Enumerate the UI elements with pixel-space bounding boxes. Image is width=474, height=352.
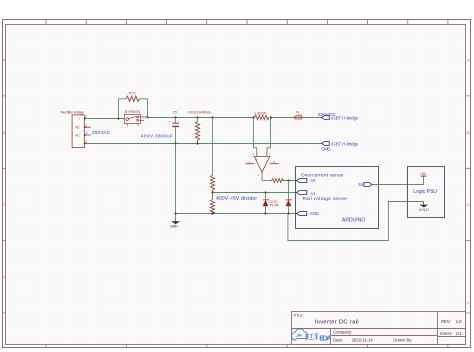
svg-text:EDA: EDA <box>319 334 331 343</box>
junction at PTC left leg <box>117 117 119 119</box>
junction gnd rail at divider <box>211 212 213 214</box>
frame row labels <box>2 58 470 306</box>
svg-text:+: + <box>256 158 258 162</box>
junction +rail at shunt left <box>252 116 254 118</box>
wire logic psu gnd <box>288 202 424 241</box>
svg-text:Company:: Company: <box>333 330 352 335</box>
svg-text:Logic PSU: Logic PSU <box>413 189 437 195</box>
kelvin sense wire right <box>267 118 271 153</box>
output series resistor <box>272 179 284 183</box>
ground symbol <box>170 214 180 229</box>
svg-text:B: B <box>2 130 5 135</box>
port GND (arduino) <box>297 211 319 216</box>
svg-text:D: D <box>2 275 5 280</box>
svg-text:ARDUINO: ARDUINO <box>342 218 366 224</box>
svg-text:5V 2W: 5V 2W <box>270 203 279 207</box>
svg-text:Rectifier bridge: Rectifier bridge <box>61 111 85 115</box>
discharge resistor R DISCHARGE <box>188 110 211 143</box>
svg-text:C5: C5 <box>173 110 177 114</box>
svg-text:-: - <box>79 142 80 146</box>
svg-text:1/1: 1/1 <box>456 331 462 336</box>
bridge pin 3 AC stub <box>84 131 91 136</box>
logic psu module <box>408 167 445 218</box>
port A1 <box>297 191 316 196</box>
svg-text:Overcurrent sense: Overcurrent sense <box>301 173 344 179</box>
arduino U2 <box>296 167 379 229</box>
svg-text:GND: GND <box>419 207 430 212</box>
wire op-amp output <box>262 175 297 180</box>
junction -rail at capacitor <box>174 142 176 144</box>
zener diode D2 <box>263 193 269 213</box>
junction divider tap <box>211 191 213 193</box>
svg-text:DISCHARGE: DISCHARGE <box>188 110 211 114</box>
svg-text:250VAC: 250VAC <box>92 130 111 136</box>
EasyEDA logo <box>292 329 319 340</box>
relay K1 BYPASS <box>124 109 147 126</box>
svg-text:Drawn By:: Drawn By: <box>393 338 412 343</box>
svg-text:TITLE:: TITLE: <box>293 313 304 317</box>
PTC resistor <box>119 91 148 118</box>
fuse F1 15A <box>295 110 322 119</box>
port A0 <box>297 178 316 183</box>
kelvin sense wire left <box>254 118 257 153</box>
wire gnd rail <box>176 213 297 215</box>
bridge pin 2 (+) stub <box>84 115 88 120</box>
+5V power flag <box>420 172 427 176</box>
junction A0 node <box>287 179 289 181</box>
shunt resistor 1.0mW <box>254 111 269 119</box>
divider resistor R lower <box>210 199 214 214</box>
wire +rail relay to fuse <box>148 117 295 119</box>
svg-text:AC: AC <box>75 126 80 130</box>
junction A1 at zener D2 <box>264 191 266 193</box>
wire divider tap <box>212 190 214 200</box>
labels D2 D1 5V 2W <box>269 200 279 207</box>
junction gnd rail at D2 <box>264 212 266 214</box>
junction +rail at shunt right <box>270 116 272 118</box>
op-amp U1 <box>246 152 279 177</box>
svg-text:Sheet:: Sheet: <box>440 331 452 336</box>
junction +rail at discharge resistor <box>196 116 198 118</box>
svg-text:GND: GND <box>170 223 178 228</box>
svg-text:GND: GND <box>321 146 331 151</box>
capacitor C5 400V,3800uF <box>141 110 179 143</box>
divider upper wire <box>212 118 214 176</box>
svg-text:Rail voltage sense: Rail voltage sense <box>303 196 348 202</box>
netport IGBT H-bridge (+rail) <box>322 115 359 120</box>
gnd flag in logic psu <box>419 202 430 213</box>
svg-text:AC: AC <box>75 133 80 137</box>
wire A1 from divider tap to port <box>213 192 297 194</box>
svg-text:1.0: 1.0 <box>456 319 462 324</box>
wire bridge+ to relay pole <box>88 118 125 120</box>
junction at PTC right leg / relay output <box>146 116 148 118</box>
junction gnd rail at D1 <box>287 212 289 214</box>
svg-text:Date:: Date: <box>333 338 343 343</box>
svg-text:3: 3 <box>86 131 88 135</box>
svg-text:A1: A1 <box>310 191 316 196</box>
svg-text:IGBT H-bridge: IGBT H-bridge <box>331 142 359 147</box>
svg-text:IGBT H-bridge: IGBT H-bridge <box>331 115 359 120</box>
bridge pin 1 AC stub <box>84 123 91 128</box>
zener diode D1 <box>286 181 292 213</box>
junction gnd rail at gnd symbol <box>174 212 176 214</box>
svg-text:+5V: +5V <box>420 172 427 176</box>
svg-text:400V->5V divider: 400V->5V divider <box>216 196 257 202</box>
netport IGBT H-bridge (GND) <box>321 142 359 152</box>
bridge pin 4 (-) stub <box>84 140 88 145</box>
svg-text:A0: A0 <box>310 178 316 183</box>
svg-text:Inverter DC rail: Inverter DC rail <box>315 320 359 326</box>
svg-text:A: A <box>2 58 5 63</box>
svg-text:400V,3800uF: 400V,3800uF <box>141 134 173 140</box>
wire divider bottom to gnd rail <box>212 211 214 213</box>
svg-text:C: C <box>467 202 470 207</box>
svg-text:REV:: REV: <box>441 319 451 324</box>
junction +rail at capacitor <box>174 116 176 118</box>
svg-text:PTC: PTC <box>129 91 137 95</box>
wire 5V to logic psu <box>372 176 424 184</box>
svg-text:2: 2 <box>85 115 87 119</box>
svg-text:A: A <box>467 58 470 63</box>
svg-text:BYPASS: BYPASS <box>125 109 141 114</box>
svg-text:C: C <box>2 202 5 207</box>
svg-text:+: + <box>78 117 80 121</box>
junction -rail at discharge <box>196 142 198 144</box>
wire bridge- negative rail <box>88 143 322 145</box>
divider resistor R upper <box>210 175 214 190</box>
svg-text:1: 1 <box>86 123 88 127</box>
wire capacitor minus to gnd rail <box>175 144 177 213</box>
svg-text:2022-11-14: 2022-11-14 <box>352 338 374 343</box>
junction +rail at divider <box>211 116 213 118</box>
svg-text:5V: 5V <box>359 182 364 187</box>
rectifier bridge B1 <box>61 111 85 148</box>
svg-text:GND: GND <box>310 211 319 216</box>
svg-text:4: 4 <box>85 140 87 144</box>
title block <box>292 312 466 345</box>
svg-text:B: B <box>467 130 470 135</box>
port 5V (arduino right) <box>359 182 372 187</box>
